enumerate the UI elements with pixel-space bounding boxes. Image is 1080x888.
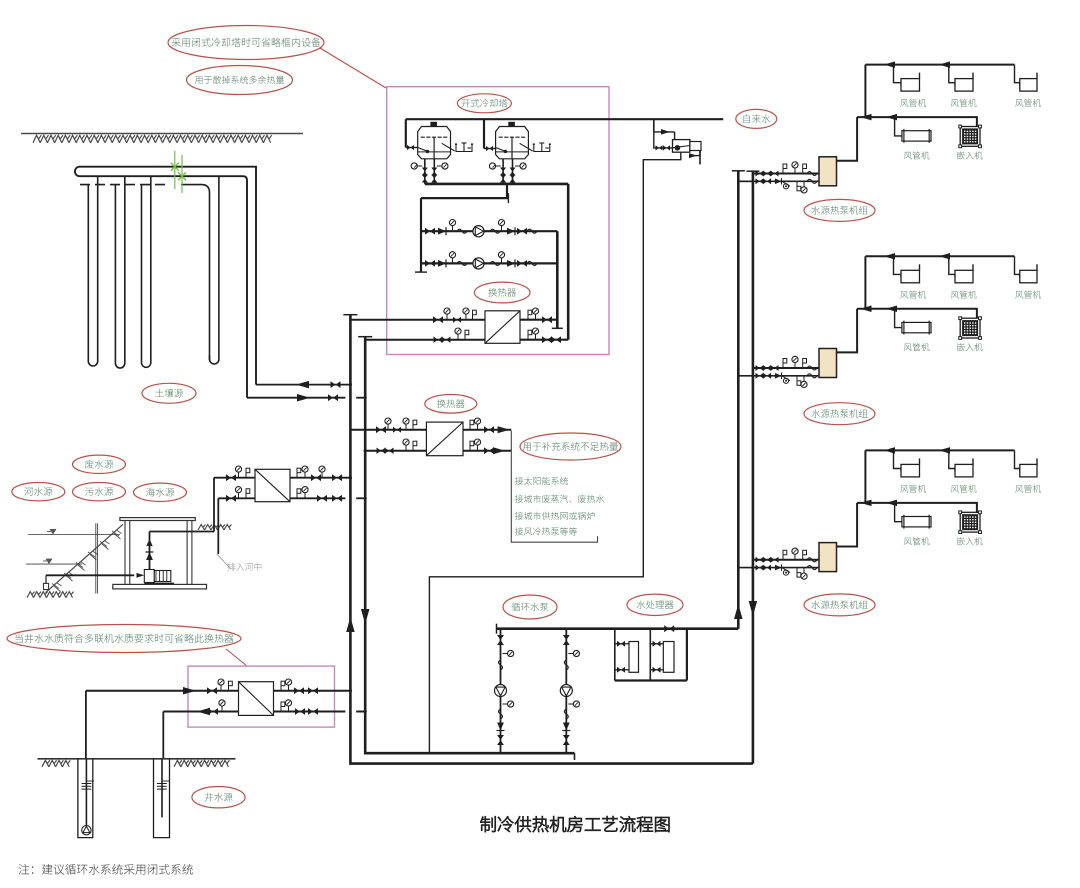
label: cassette unit (957, 537, 983, 545)
pump house right column (186, 521, 188, 585)
pipe: supply riser to HX1 upper (350, 319, 485, 321)
pipe: HX1 lower to tower return riser (520, 339, 568, 341)
return header end tick (574, 753, 576, 760)
pipe: HX2 lower from return riser (290, 497, 345, 499)
header A to header B connector (506, 184, 508, 198)
right supply riser cap (732, 170, 745, 172)
tower 2 inlet valves (484, 148, 496, 150)
duct unit FC2 (955, 79, 973, 92)
filter 1 connections (615, 643, 629, 645)
label: heat exchanger HX1 (474, 282, 530, 303)
callout ellipse: omit this HX note (7, 625, 241, 653)
label: soil source (142, 383, 196, 403)
return drop pipe discharge to river (217, 498, 219, 554)
duct unit FC2 drop (949, 450, 955, 471)
callout ellipse: supplement insufficient heat (520, 433, 621, 460)
cooling water pump branch at y=263.4 (421, 262, 557, 264)
label: water source heat pump unit (804, 594, 875, 616)
pump suction header B (421, 197, 508, 199)
ground hatch (33, 135, 272, 143)
second header riser link (864, 256, 866, 309)
label: duct unit (904, 151, 930, 159)
cassette unit grille (960, 127, 980, 147)
main supply riser (350, 315, 753, 764)
intake suction pipe (45, 575, 47, 583)
recharge drop pipe (162, 712, 164, 759)
title: cooling/heating plant process flow diagram (480, 816, 669, 832)
label: duct unit (900, 99, 926, 107)
treatment return pipe (686, 629, 688, 681)
treatment bottom header (615, 679, 687, 681)
heat pump unit connection pipe (837, 309, 858, 353)
pipe: HX3 upper to heat sources (463, 429, 511, 431)
pump house base slab (113, 584, 207, 589)
label: cassette unit (957, 343, 983, 351)
callout ellipse: omit in-frame equipment note (168, 26, 324, 60)
circulating pump branch at x=566.3 (565, 629, 567, 754)
right supply riser arrow (734, 604, 743, 619)
heat pump hookup piping upper row (753, 559, 819, 561)
pump house left column (124, 521, 126, 585)
duct unit FC1 drop (894, 450, 902, 471)
label: well water source (192, 787, 245, 808)
duct unit FC4 (horizontal) (902, 322, 931, 332)
heat exchanger HX1 (485, 311, 520, 344)
meter outlet strainer (690, 142, 701, 151)
pink frame around cooling tower circuit (387, 87, 609, 355)
tower return riser from header A (567, 184, 570, 340)
well pump drop pipe (85, 759, 87, 826)
duct unit FC4 drop (895, 309, 902, 328)
treatment branch pipe 2 (649, 629, 651, 681)
duct unit FC3 (1020, 79, 1037, 92)
river bed hatch (27, 592, 73, 598)
pipe: HX3 lower to heat sources (463, 450, 511, 452)
label: duct unit (1015, 291, 1041, 299)
label: duct unit (904, 343, 930, 351)
heat pump hookup piping lower row (738, 375, 819, 377)
ground surface line (21, 133, 303, 135)
label: heat exchanger HX3 (425, 395, 477, 414)
leader line to pink frame (226, 649, 247, 666)
supply riser to HX2 (213, 478, 215, 532)
right supply riser (737, 171, 740, 629)
label: water source heat pump unit (804, 403, 875, 425)
heat exchanger HX4 (239, 682, 274, 716)
label: duct unit (951, 99, 977, 107)
fan coil top header (865, 64, 1014, 66)
discharge header to heat exchanger (150, 531, 215, 533)
well ground hatch right (174, 760, 229, 767)
staff gauge (95, 523, 97, 593)
pump discharge riser (149, 532, 151, 570)
label: open cooling tower (457, 94, 511, 113)
cooling tower T at x=417.7 (418, 127, 451, 159)
coil U-tube 4 (210, 176, 219, 364)
fan coil second header (857, 117, 977, 126)
duct unit FC2 drop (949, 256, 955, 277)
label: duct unit (951, 485, 977, 493)
check valve on discharge (146, 552, 153, 560)
pipe: HX4 lower from return riser (274, 711, 346, 713)
cassette unit grille (960, 318, 980, 338)
duct unit FC2 drop (949, 65, 955, 86)
right return riser arrow (749, 601, 758, 616)
water level marks well 1 (82, 783, 92, 785)
label: air source heat pump etc (515, 527, 577, 535)
supply riser flow arrow (346, 617, 355, 632)
makeup water down pipe (429, 152, 680, 753)
fan coil second header (857, 309, 977, 318)
water level symbol 1 (50, 529, 57, 535)
duct unit FC3 (1020, 464, 1037, 477)
treatment branch pipe 1 (614, 629, 616, 681)
label: river water source (12, 483, 65, 501)
duct unit FC1 (901, 270, 920, 283)
float valve T2 (534, 146, 550, 152)
callout ellipse: dissipate surplus heat note (187, 66, 293, 95)
duct unit FC4 drop (895, 503, 902, 522)
label: sea water source (134, 483, 187, 501)
label: discharge into river (227, 563, 261, 571)
recharge well pipe (161, 759, 163, 818)
tower outlet pipe at x=512.5 (512, 159, 514, 184)
river bank slope (46, 524, 123, 592)
label: duct unit (900, 291, 926, 299)
heat pump hookup piping upper row (753, 367, 819, 369)
cooling tower T at x=495.6 (496, 127, 529, 159)
slope hatch tufts (112, 531, 119, 536)
main line valve (664, 625, 669, 632)
duct unit FC1 drop (894, 65, 902, 86)
filter 2 connections (650, 643, 663, 645)
intake pump house platform (120, 518, 195, 521)
label: circulating pumps (503, 595, 557, 619)
heat exchanger HX3 (426, 422, 463, 456)
coil U-tube 2 (115, 176, 124, 368)
note: recommend closed circulating water system (19, 864, 193, 875)
well supply riser (85, 691, 87, 759)
foot valve strainer (44, 583, 49, 589)
duct unit FC3 drop (1015, 65, 1020, 86)
heat pump unit connection pipe (837, 117, 858, 161)
heat pump unit connection pipe (837, 503, 858, 547)
tower 1 inlet valves (406, 147, 418, 149)
fan coil top header (865, 449, 1014, 451)
pipe: return riser to HX1 lower (365, 339, 485, 341)
tap water branch drop (653, 119, 655, 132)
label: cassette unit (957, 151, 983, 159)
coil supply pipe to riser (256, 384, 350, 386)
pipe: HX4 return to recharge well (163, 711, 238, 713)
duct unit FC4 drop (895, 117, 902, 136)
label: city heating network or boiler (515, 512, 595, 520)
label: duct unit (900, 485, 926, 493)
coil U-tube 3 (142, 176, 151, 367)
label: duct unit (1015, 485, 1041, 493)
fan coil second header (857, 503, 977, 512)
heat source list box (511, 431, 597, 542)
ground heat exchanger coil (75, 167, 256, 398)
well ground hatch left (42, 760, 70, 767)
suction cone into pump (137, 573, 145, 578)
tower feed / tap water top line (406, 118, 723, 120)
heat pump hookup piping lower row (738, 567, 819, 569)
fan coil top header (865, 255, 1014, 257)
duct unit FC4 (horizontal) (902, 517, 931, 527)
pipe: HX4 upper to supply riser (274, 690, 351, 692)
submersible pump P-well (82, 826, 91, 835)
water source heat pump unit (819, 157, 837, 186)
pipe: HX2 lower return (218, 497, 255, 499)
heat pump hookup piping upper row (753, 173, 819, 175)
recharge well casing (154, 759, 170, 838)
heat exchanger HX2 (255, 469, 290, 501)
water level marks well 2 (157, 783, 167, 785)
tower outlet pipe at x=503.1 (502, 159, 504, 184)
pipe: return riser to HX3 lower (365, 450, 426, 452)
coil U-tube 1 (88, 176, 97, 366)
pump discharge drop pipe (556, 231, 559, 328)
duct unit FC4 (horizontal) (902, 131, 931, 141)
second header riser link (864, 450, 866, 503)
coil inner header dashed (80, 184, 170, 186)
cooling water pump branch at y=231.2 (421, 230, 557, 232)
filter vessel 1 (629, 642, 639, 673)
water level symbol 2 (46, 559, 53, 565)
label: tap water (736, 109, 777, 128)
duct unit FC3 drop (1015, 256, 1020, 277)
tower outlet pipe at x=424.8 (424, 159, 426, 184)
cassette unit grille (960, 512, 980, 532)
duct unit FC3 drop (1015, 450, 1020, 471)
duct unit FC2 (955, 464, 973, 477)
duct unit FC2 (955, 270, 973, 283)
return riser cap (358, 336, 372, 338)
pipe: supply riser to HX3 upper (350, 429, 426, 431)
water meter bypass top (654, 131, 675, 133)
pipe: HX1 upper to pump drop (520, 319, 557, 321)
label: water treatment device (627, 594, 683, 615)
junction dots (349, 383, 352, 386)
return riser flow arrow (361, 609, 370, 624)
intake pump with motor (144, 570, 154, 583)
supply riser cap (343, 314, 357, 316)
label: sewage source (73, 483, 126, 501)
duct unit FC1 (901, 464, 920, 477)
tower 2 feed drop (483, 119, 485, 148)
lower water surface line (26, 563, 82, 565)
discharge leader line (217, 554, 231, 569)
water meter inlet (654, 132, 673, 148)
label: waste water source (73, 455, 126, 473)
water source heat pump unit (819, 349, 837, 378)
coil return pipe from riser (247, 397, 345, 399)
label: water source heat pump unit (804, 199, 875, 221)
pipe: HX2 upper to supply riser (290, 477, 350, 479)
tower outlet pipe at x=434.3 (433, 159, 435, 184)
label: solar system (515, 477, 568, 485)
leader line to cooling tower frame (320, 48, 386, 88)
tower basin outlet header A (425, 183, 568, 186)
reducer on discharge (146, 539, 152, 546)
duct unit FC1 (901, 79, 920, 92)
heat pump hookup piping lower row (738, 180, 819, 182)
pipe: well supply to HX4 (86, 690, 239, 692)
pump suction header (497, 627, 739, 630)
circulating pump branch at x=500.5 (500, 629, 502, 754)
ground line at wells (38, 758, 236, 760)
meter outlet drop (699, 151, 701, 156)
green isolation valves on coil headers (174, 151, 176, 189)
label: duct unit (904, 537, 930, 545)
upper water surface line (28, 534, 120, 536)
duct unit FC3 (1020, 270, 1037, 283)
pipe: intake to HX2 upper (214, 477, 255, 479)
water source heat pump unit (819, 543, 837, 572)
filter vessel 2 (663, 642, 674, 673)
label: duct unit (951, 291, 977, 299)
main return riser (365, 337, 574, 754)
float valve T1 (456, 146, 472, 152)
right return riser cap (746, 170, 759, 172)
riser tie g1 (738, 180, 753, 182)
pink frame around well HX (188, 666, 335, 727)
right return riser (752, 171, 755, 763)
label: city waste steam/hot water (515, 495, 604, 503)
second header riser link (864, 65, 866, 118)
label: duct unit (1015, 99, 1041, 107)
pump suction left pipe (420, 198, 422, 272)
duct unit FC1 drop (894, 256, 902, 277)
tower 1 feed drop (405, 119, 407, 147)
production well casing (78, 759, 93, 838)
water meter (673, 140, 690, 153)
